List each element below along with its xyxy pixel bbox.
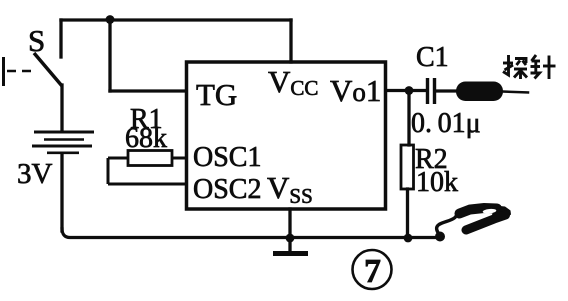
wire switch top [59, 20, 62, 57]
wire probe right [503, 92, 528, 93]
figure number 7 [353, 250, 392, 289]
switch S [4, 53, 63, 86]
wire Vo1 out [386, 89, 425, 92]
label probe (Chinese tan) [503, 55, 527, 79]
wire top rail [61, 18, 291, 21]
svg-text:10k: 10k [416, 167, 458, 198]
node junction R2 bottom [404, 234, 413, 243]
alligator clip lead [437, 213, 459, 236]
clip connector dot [435, 232, 445, 242]
alligator clip lower jaw [466, 215, 506, 230]
alligator clip upper jaw [460, 208, 498, 214]
wire bottom rail [62, 229, 440, 238]
wire battery top [60, 85, 63, 131]
svg-text:OSC1: OSC1 [193, 142, 261, 173]
ground [273, 251, 308, 256]
svg-text:S: S [28, 23, 45, 58]
node junction top [106, 15, 115, 24]
label probe (Chinese zhen) [531, 55, 556, 79]
svg-text:TG: TG [196, 77, 237, 112]
clip screw hole [483, 208, 497, 214]
svg-text:C1: C1 [416, 42, 449, 73]
capacitor C1 [428, 78, 435, 104]
wire C1 to probe [436, 89, 457, 92]
wire battery bottom [60, 154, 63, 231]
probe body [456, 82, 503, 102]
wire TG branch vertical [108, 20, 111, 91]
resistor R1 [108, 151, 186, 185]
svg-text:Vo1: Vo1 [330, 73, 381, 108]
svg-text:7: 7 [364, 253, 381, 290]
node junction Vo1 [405, 86, 414, 95]
svg-text:OSC2: OSC2 [193, 174, 261, 205]
svg-text:0. 01μ: 0. 01μ [411, 108, 481, 139]
battery 3V [32, 132, 94, 153]
svg-text:68k: 68k [125, 123, 167, 154]
wire R2 top [407, 91, 410, 146]
svg-text:3V: 3V [17, 158, 53, 190]
op-amp U1 IC body [187, 62, 386, 209]
wire ground stem [288, 209, 291, 251]
node junction ground [286, 234, 295, 243]
clip beak tip [492, 206, 511, 221]
resistor R2 [401, 145, 414, 189]
wire R2 bottom [406, 189, 409, 238]
wire Vcc drop [289, 20, 292, 62]
wire TG branch horizontal [110, 89, 186, 92]
